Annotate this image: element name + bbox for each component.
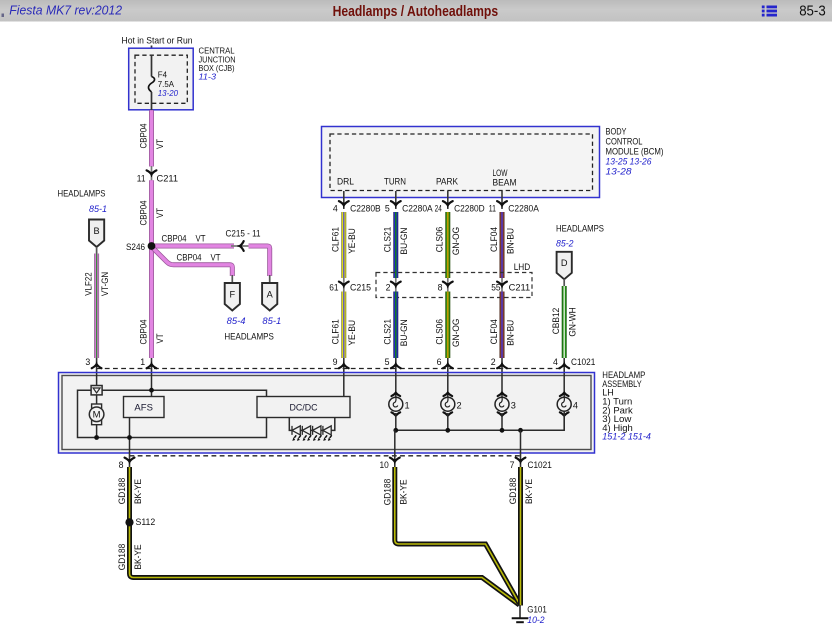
- splice S112: [125, 518, 133, 526]
- wire pin 3 to level sensor: [96, 373, 98, 386]
- leveling position sensor (triangle box): [91, 386, 102, 395]
- junction: AFS ground to bus: [127, 435, 132, 440]
- svg-text:BK-YE: BK-YE: [398, 479, 408, 504]
- svg-text:TURN: TURN: [384, 177, 406, 187]
- svg-text:CLS21: CLS21: [383, 227, 393, 253]
- svg-text:Hot in Start or Run: Hot in Start or Run: [122, 36, 193, 46]
- svg-text:CLS06: CLS06: [435, 227, 445, 253]
- svg-text:CBP04: CBP04: [162, 234, 187, 244]
- connector C211 pin 55 (in-line): [501, 278, 503, 292]
- wire CLS06 GN-OG lower run to pin 6: [445, 292, 450, 359]
- junction: lamp 2 to bus: [445, 428, 450, 433]
- svg-text:24: 24: [435, 203, 442, 213]
- svg-text:8: 8: [119, 460, 124, 470]
- svg-text:CBP04: CBP04: [138, 123, 148, 148]
- fuse F4 7.5A symbol: [148, 55, 154, 111]
- svg-text:1: 1: [140, 357, 145, 367]
- svg-text:B: B: [94, 226, 100, 236]
- svg-text:CLF61: CLF61: [331, 319, 341, 344]
- bulb 3 (lamp circle): [495, 373, 516, 430]
- svg-text:PARK: PARK: [436, 177, 458, 187]
- svg-text:85-4: 85-4: [227, 316, 246, 326]
- svg-text:M: M: [93, 410, 101, 421]
- wire CBP04 VT from C211 through splice S246 to headlamp pin 1: [149, 180, 154, 358]
- connector C215-11 stub: [231, 245, 250, 247]
- svg-text:2: 2: [386, 283, 391, 293]
- svg-text:HEADLAMPS: HEADLAMPS: [556, 224, 604, 234]
- svg-text:D: D: [561, 258, 568, 268]
- svg-text:2: 2: [457, 401, 462, 411]
- svg-text:11-3: 11-3: [199, 73, 217, 82]
- svg-text:10-2: 10-2: [527, 615, 544, 625]
- svg-text:LHD: LHD: [514, 262, 531, 272]
- svg-text:YE-BU: YE-BU: [347, 320, 357, 346]
- junction: pin 1 wire and sensor loop: [149, 388, 154, 393]
- wire bus to pin 10: [394, 430, 396, 453]
- headlamp assembly pin 4 (top): [563, 358, 565, 373]
- svg-text:3: 3: [511, 401, 516, 411]
- svg-text:C211: C211: [157, 174, 179, 184]
- svg-text:C1021: C1021: [571, 357, 595, 367]
- headlamp assembly inner border: [62, 376, 591, 450]
- svg-text:Headlamps / Autoheadlamps: Headlamps / Autoheadlamps: [333, 4, 499, 20]
- svg-text:BK-YE: BK-YE: [133, 544, 143, 569]
- bulb 1 (lamp circle): [389, 373, 410, 430]
- svg-text:BN-BU: BN-BU: [505, 228, 515, 254]
- svg-text:GD188: GD188: [117, 544, 127, 571]
- branch wire CBP04 VT from S246 to C215-11: [152, 244, 235, 249]
- wire VLF22 VT-GN from connector B to headlamp pin 3: [94, 254, 99, 359]
- svg-text:VLF22: VLF22: [83, 272, 93, 295]
- LED string wiring: [289, 418, 335, 431]
- svg-text:6: 6: [437, 357, 442, 367]
- LED D2 in DRL string: [302, 426, 311, 441]
- wire CBP04 VT from fuse F4 to connector C211: [149, 110, 154, 166]
- svg-text:VT: VT: [211, 252, 222, 262]
- svg-text:10: 10: [380, 460, 389, 470]
- LED D4 in DRL string: [323, 426, 332, 441]
- C1021 dashed connector line (top): [97, 368, 565, 370]
- headlamp assembly pin 1 (top): [151, 358, 153, 373]
- svg-text:C2280D: C2280D: [454, 203, 485, 213]
- svg-text:AFS: AFS: [134, 402, 153, 412]
- wire pin 9 to DC/DC: [343, 373, 345, 397]
- svg-text:C215 - 11: C215 - 11: [226, 229, 261, 239]
- svg-text:S112: S112: [136, 517, 156, 527]
- svg-text:GN-OG: GN-OG: [451, 227, 461, 255]
- svg-text:C1021: C1021: [528, 460, 552, 470]
- svg-text:BK-YE: BK-YE: [133, 479, 143, 504]
- wire CLF04 BN-BU upper run (LOW BEAM): [500, 212, 505, 278]
- connector C211 pin 8 (in-line): [447, 278, 449, 292]
- wire GD188 BK-YE from pin 10 to ground G101: [395, 467, 520, 604]
- svg-text:S246: S246: [126, 242, 145, 252]
- ground G101 symbol: [512, 605, 529, 622]
- svg-text:DRL: DRL: [337, 177, 354, 187]
- svg-text:151-2 151-4: 151-2 151-4: [602, 432, 651, 442]
- stub to connector F: [231, 275, 233, 284]
- headlamp assembly pin 7 (bottom): [520, 453, 522, 467]
- svg-text:F: F: [229, 289, 235, 299]
- svg-text:13-28: 13-28: [606, 167, 633, 177]
- svg-text:85-2: 85-2: [556, 239, 574, 249]
- AFS module box: [124, 397, 165, 418]
- svg-text:55: 55: [491, 283, 500, 293]
- headlamp assembly pin 2 (top): [501, 358, 503, 373]
- BCM pin 5 C2280A: [395, 191, 397, 209]
- bulb 4 (lamp circle): [557, 373, 578, 430]
- headlamp assembly outline (blue): [59, 373, 595, 454]
- BCM name text: [606, 127, 664, 177]
- junction: lamp 3 to bus: [500, 428, 505, 433]
- headlamp assembly name text: [602, 370, 651, 442]
- wire CLF61 YE-BU lower run to pin 9: [341, 292, 346, 359]
- svg-text:5: 5: [385, 203, 390, 213]
- LHD dashed option box: [376, 273, 532, 298]
- headlamp assembly pin 5 (top): [395, 358, 397, 373]
- svg-text:BK-YE: BK-YE: [524, 479, 534, 504]
- body control module BCM outline: [322, 127, 600, 198]
- svg-text:BN-BU: BN-BU: [505, 320, 515, 346]
- motor M (leveling motor): [89, 395, 104, 438]
- wire GD188 BK-YE from pin 8 through splice S112 to ground G101: [130, 467, 520, 605]
- CJB inner dashed border: [135, 55, 187, 103]
- svg-text:F4: F4: [158, 70, 168, 80]
- svg-text:JUNCTION: JUNCTION: [199, 55, 236, 64]
- wire GD188 BK-YE from pin 7 to ground G101: [518, 467, 523, 606]
- svg-text:CLS06: CLS06: [435, 319, 445, 345]
- connector D (headlamps 85-2): [557, 252, 572, 279]
- svg-text:GN-WH: GN-WH: [568, 307, 578, 336]
- svg-text:GD188: GD188: [117, 478, 127, 505]
- svg-text:MODULE (BCM): MODULE (BCM): [606, 147, 664, 157]
- LED D1 in DRL string: [292, 426, 301, 441]
- svg-text:Fiesta MK7 rev:2012: Fiesta MK7 rev:2012: [9, 2, 122, 17]
- connector B (headlamps 85-1): [89, 220, 104, 248]
- svg-text:A: A: [267, 289, 274, 299]
- headlamp assembly pin 9 (top): [343, 358, 345, 373]
- headlamp assembly pin 3 (top): [96, 358, 98, 373]
- wire from C215-11 to connector A: [249, 246, 270, 276]
- svg-text:CONTROL: CONTROL: [606, 137, 643, 147]
- svg-text:C211: C211: [509, 283, 531, 293]
- svg-text:GD188: GD188: [508, 478, 518, 505]
- stub to connector A: [269, 275, 271, 284]
- svg-text:CBP04: CBP04: [138, 319, 148, 344]
- svg-text:1: 1: [405, 401, 410, 411]
- connector A (headlamps 85-1): [262, 283, 277, 311]
- svg-text:VT: VT: [155, 207, 165, 218]
- headlamp assembly pin 10 (bottom): [394, 453, 396, 467]
- svg-text:GN-OG: GN-OG: [451, 319, 461, 347]
- stub from connector D to wire: [563, 279, 565, 287]
- svg-text:GD188: GD188: [382, 479, 392, 506]
- bulb 2 (lamp circle): [441, 373, 462, 430]
- header list/menu icon: [762, 6, 777, 17]
- svg-text:BODY: BODY: [606, 127, 627, 137]
- svg-text:13-20: 13-20: [158, 88, 179, 98]
- wire CBB12 GN-WH from connector D to headlamp pin 4: [562, 286, 567, 358]
- svg-text:11: 11: [137, 174, 146, 184]
- svg-text:5: 5: [385, 357, 390, 367]
- svg-text:CBP04: CBP04: [138, 200, 148, 225]
- svg-text:YE-BU: YE-BU: [347, 228, 357, 254]
- svg-text:VT: VT: [155, 333, 165, 344]
- svg-text:C215: C215: [350, 283, 371, 293]
- wire CLS21 BU-GN upper run (TURN): [393, 212, 398, 278]
- central junction box CJB outline: [129, 48, 194, 110]
- lamp common ground bus: [396, 411, 564, 430]
- svg-text:7: 7: [510, 460, 515, 470]
- header left corner mark: [2, 14, 5, 18]
- connector F (headlamps 85-4): [225, 283, 240, 311]
- svg-text:3: 3: [85, 357, 90, 367]
- svg-text:HEADLAMPS: HEADLAMPS: [58, 189, 106, 199]
- BCM inner dashed border: [330, 134, 593, 191]
- connector C215 pin 61 (in-line): [343, 278, 345, 292]
- svg-text:2: 2: [491, 357, 496, 367]
- branch wire CBP04 VT from S246 to connector F: [152, 247, 233, 276]
- svg-text:4: 4: [333, 203, 338, 213]
- svg-text:BU-GN: BU-GN: [399, 319, 409, 346]
- wire bus to pin 7: [520, 430, 522, 453]
- svg-text:4: 4: [573, 401, 578, 411]
- svg-text:HEADLAMPS: HEADLAMPS: [224, 332, 274, 342]
- svg-text:85-1: 85-1: [262, 316, 281, 326]
- svg-text:CLS21: CLS21: [383, 319, 393, 345]
- svg-text:C2280A: C2280A: [402, 203, 433, 213]
- svg-text:LOW: LOW: [493, 168, 509, 178]
- svg-text:11: 11: [489, 203, 496, 213]
- BCM output label LOW BEAM: [493, 168, 517, 188]
- svg-text:BU-GN: BU-GN: [399, 228, 409, 255]
- DC/DC converter box: [257, 397, 350, 418]
- feed wire into fuse box: [151, 46, 153, 78]
- junction: motor to ground bus: [94, 435, 99, 440]
- svg-text:61: 61: [329, 283, 338, 293]
- wire CLF61 YE-BU upper run (DRL): [341, 212, 346, 278]
- svg-text:13-25 13-26: 13-25 13-26: [606, 157, 653, 167]
- svg-text:CLF04: CLF04: [489, 319, 499, 344]
- stub from connector B to wire: [96, 247, 98, 254]
- svg-text:85-1: 85-1: [89, 204, 107, 214]
- connector C211 pin 11 stub: [151, 166, 153, 181]
- svg-text:4: 4: [553, 357, 558, 367]
- connector C211 pin 2 (in-line): [395, 278, 397, 292]
- svg-text:BEAM: BEAM: [493, 178, 517, 188]
- svg-text:VT: VT: [196, 234, 207, 244]
- svg-text:DC/DC: DC/DC: [290, 402, 318, 412]
- C1021 dashed connector line (bottom): [130, 455, 521, 457]
- wire CLF04 BN-BU lower run to pin 2: [500, 292, 505, 359]
- wire pin 1 to AFS: [151, 373, 153, 397]
- junction: bus to pin 7: [518, 428, 523, 433]
- junction: lamp 1 to bus: [393, 428, 398, 433]
- splice S246: [148, 242, 156, 250]
- BCM pin 24 C2280D: [447, 191, 449, 209]
- LED D3 in DRL string: [313, 426, 322, 441]
- wire CLS21 BU-GN lower run to pin 5: [393, 292, 398, 359]
- BCM pin 11 C2280A: [501, 191, 503, 209]
- svg-text:CBB12: CBB12: [551, 308, 561, 335]
- svg-text:C2280B: C2280B: [350, 203, 381, 213]
- svg-text:VT-GN: VT-GN: [100, 272, 110, 296]
- headlamp assembly pin 6 (top): [447, 358, 449, 373]
- svg-text:C2280A: C2280A: [508, 203, 539, 213]
- svg-text:CBP04: CBP04: [177, 252, 202, 262]
- svg-text:85-3: 85-3: [799, 4, 826, 20]
- headlamp assembly pin 8 (bottom): [129, 453, 131, 467]
- BCM pin 4 C2280B: [343, 191, 345, 209]
- svg-text:CLF61: CLF61: [331, 227, 341, 252]
- svg-text:CLF04: CLF04: [489, 227, 499, 252]
- svg-text:9: 9: [333, 357, 338, 367]
- CJB name text: [199, 47, 236, 82]
- svg-text:VT: VT: [155, 138, 165, 149]
- svg-text:G101: G101: [527, 605, 547, 615]
- connector C211 arrow (in-line): [147, 170, 157, 177]
- sensor loop wiring: [78, 390, 267, 437]
- wire AFS to ground bus and pin 8: [129, 418, 131, 454]
- svg-text:8: 8: [438, 283, 443, 293]
- wire CLS06 GN-OG upper run (PARK): [445, 212, 450, 278]
- connector C215 pin 11 arrow (in-line, pointing left): [237, 241, 244, 251]
